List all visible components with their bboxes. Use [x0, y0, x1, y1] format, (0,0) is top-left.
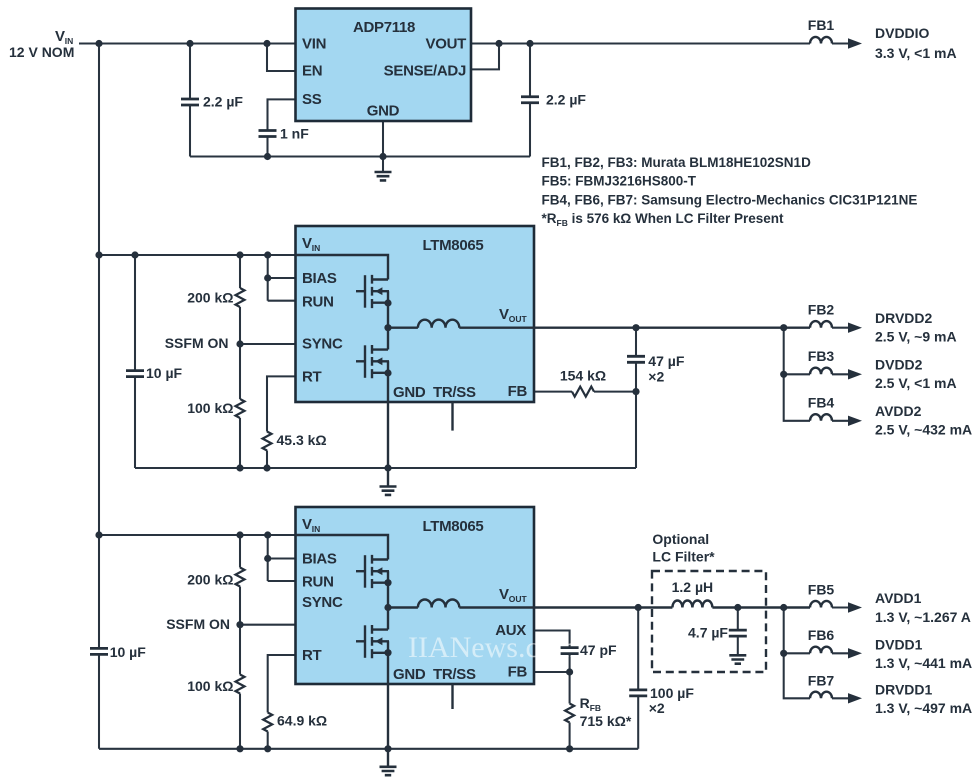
svg-text:AVDD2: AVDD2 — [875, 403, 922, 419]
svg-text:GND: GND — [393, 666, 426, 683]
svg-text:SYNC: SYNC — [302, 336, 343, 353]
svg-text:47 pF: 47 pF — [580, 642, 617, 658]
svg-text:200 kΩ: 200 kΩ — [187, 290, 233, 306]
svg-text:BIAS: BIAS — [302, 551, 337, 568]
svg-text:TR/SS: TR/SS — [433, 384, 476, 401]
svg-text:VIN: VIN — [302, 36, 326, 53]
svg-text:FB4: FB4 — [808, 395, 835, 411]
svg-text:2.5 V, <1 mA: 2.5 V, <1 mA — [875, 375, 957, 391]
svg-text:GND: GND — [393, 384, 426, 401]
svg-text:LTM8065: LTM8065 — [423, 237, 484, 254]
svg-text:RUN: RUN — [302, 574, 334, 591]
svg-text:RT: RT — [302, 647, 322, 664]
svg-text:10 µF: 10 µF — [110, 644, 147, 660]
svg-text:12 V NOM: 12 V NOM — [9, 44, 74, 60]
svg-text:FB1, FB2, FB3: Murata BLM18HE1: FB1, FB2, FB3: Murata BLM18HE102SN1D — [542, 155, 812, 170]
svg-text:FB: FB — [508, 664, 528, 681]
svg-text:2.2 µF: 2.2 µF — [203, 94, 243, 110]
svg-text:RFB: RFB — [580, 695, 601, 713]
svg-text:100 µF: 100 µF — [650, 685, 694, 701]
svg-text:ADP7118: ADP7118 — [353, 19, 415, 36]
svg-text:SS: SS — [302, 91, 322, 108]
svg-text:SSFM ON: SSFM ON — [166, 616, 230, 632]
svg-text:LC Filter*: LC Filter* — [652, 549, 715, 565]
svg-text:RT: RT — [302, 369, 322, 386]
svg-text:×2: ×2 — [648, 368, 664, 384]
svg-text:AUX: AUX — [495, 622, 526, 639]
svg-text:SSFM ON: SSFM ON — [165, 335, 229, 351]
svg-text:2.5 V, ~9 mA: 2.5 V, ~9 mA — [875, 329, 957, 345]
svg-text:DVDDIO: DVDDIO — [875, 25, 930, 41]
svg-text:FB2: FB2 — [808, 302, 835, 318]
svg-text:IIANews.com: IIANews.com — [408, 631, 577, 664]
svg-text:FB1: FB1 — [808, 17, 835, 33]
svg-text:1.3 V, ~497 mA: 1.3 V, ~497 mA — [875, 700, 972, 716]
svg-text:1.3 V, ~1.267 A: 1.3 V, ~1.267 A — [875, 609, 971, 625]
svg-text:EN: EN — [302, 63, 322, 80]
svg-text:LTM8065: LTM8065 — [423, 518, 484, 535]
svg-text:DRVDD2: DRVDD2 — [875, 310, 933, 326]
svg-text:FB5: FBMJ3216HS800-T: FB5: FBMJ3216HS800-T — [542, 174, 697, 189]
svg-text:4.7 µF: 4.7 µF — [688, 625, 728, 641]
svg-text:VOUT: VOUT — [426, 36, 467, 53]
svg-text:*RFB is 576 kΩ When LC Filter: *RFB is 576 kΩ When LC Filter Present — [542, 211, 785, 228]
svg-text:DRVDD1: DRVDD1 — [875, 682, 933, 698]
svg-text:AVDD1: AVDD1 — [875, 590, 922, 606]
svg-text:FB5: FB5 — [808, 582, 835, 598]
svg-text:715 kΩ*: 715 kΩ* — [580, 713, 632, 729]
svg-text:2.5 V, ~432 mA: 2.5 V, ~432 mA — [875, 422, 972, 438]
svg-text:100 kΩ: 100 kΩ — [187, 400, 233, 416]
svg-text:SENSE/ADJ: SENSE/ADJ — [384, 63, 466, 80]
svg-text:10 µF: 10 µF — [146, 365, 183, 381]
svg-text:FB: FB — [508, 383, 528, 400]
svg-text:100 kΩ: 100 kΩ — [187, 678, 233, 694]
svg-text:SYNC: SYNC — [302, 594, 343, 611]
svg-text:GND: GND — [367, 103, 400, 120]
svg-text:FB7: FB7 — [808, 673, 835, 689]
svg-text:BIAS: BIAS — [302, 270, 337, 287]
svg-text:2.2 µF: 2.2 µF — [546, 92, 586, 108]
svg-text:1.3 V, ~441 mA: 1.3 V, ~441 mA — [875, 655, 972, 671]
svg-text:TR/SS: TR/SS — [433, 666, 476, 683]
svg-text:47 µF: 47 µF — [648, 353, 685, 369]
svg-text:154 kΩ: 154 kΩ — [560, 368, 606, 384]
svg-text:FB6: FB6 — [808, 627, 835, 643]
svg-text:Optional: Optional — [652, 531, 709, 547]
svg-text:FB3: FB3 — [808, 348, 835, 364]
svg-text:1.2 µH: 1.2 µH — [672, 579, 714, 595]
svg-text:45.3 kΩ: 45.3 kΩ — [277, 432, 327, 448]
svg-text:DVDD1: DVDD1 — [875, 637, 923, 653]
svg-text:200 kΩ: 200 kΩ — [187, 572, 233, 588]
svg-text:RUN: RUN — [302, 294, 334, 311]
svg-text:×2: ×2 — [649, 700, 665, 716]
svg-text:3.3 V, <1 mA: 3.3 V, <1 mA — [875, 45, 957, 61]
svg-text:DVDD2: DVDD2 — [875, 357, 923, 373]
svg-text:1 nF: 1 nF — [280, 126, 309, 142]
svg-text:FB4, FB6, FB7: Samsung Electro: FB4, FB6, FB7: Samsung Electro-Mechanics… — [542, 192, 918, 207]
svg-text:64.9 kΩ: 64.9 kΩ — [277, 713, 327, 729]
